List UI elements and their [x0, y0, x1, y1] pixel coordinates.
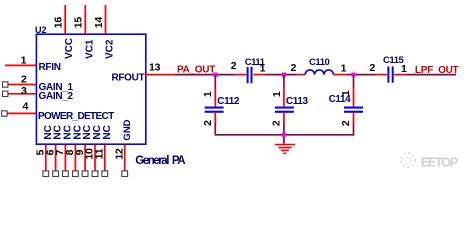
capacitor C113 pin1 stub — [283, 88, 285, 107]
port square pin3 — [3, 91, 8, 96]
svg-text:1: 1 — [21, 54, 27, 66]
capacitor C113 plates — [275, 107, 294, 109]
wire to bottom rail — [283, 123, 285, 135]
bottom ground rail wire — [215, 134, 355, 136]
svg-text:POWER_DETECT: POWER_DETECT — [38, 111, 114, 122]
wire — [356, 74, 376, 76]
svg-text:12: 12 — [113, 148, 125, 160]
svg-text:GAIN_2: GAIN_2 — [39, 91, 74, 102]
capacitor C112 plates — [205, 107, 224, 109]
pin 7 wire — [64, 145, 66, 171]
svg-text:1: 1 — [260, 63, 266, 75]
ground — [275, 145, 295, 154]
net PA_OUT wire — [175, 74, 214, 76]
pin 6 wire — [55, 145, 57, 171]
capacitor C114 pin2 stub — [353, 113, 355, 123]
svg-text:EETOP: EETOP — [421, 156, 458, 170]
pin 8 wire — [74, 145, 76, 171]
svg-text:16: 16 — [53, 17, 65, 29]
pin 14 wire — [105, 5, 107, 34]
net LPF_OUT wire — [406, 74, 456, 76]
svg-text:13: 13 — [149, 61, 161, 73]
svg-text:U2: U2 — [35, 25, 47, 35]
pin 13 wire — [145, 74, 175, 76]
svg-text:PA_OUT: PA_OUT — [177, 64, 215, 75]
ground stem — [283, 137, 285, 144]
pin 15 wire — [84, 5, 86, 34]
capacitor C111 plates — [247, 67, 249, 83]
pin 11 wire — [104, 145, 106, 171]
wire — [217, 74, 235, 76]
svg-text:C112: C112 — [217, 96, 240, 107]
svg-text:2: 2 — [202, 120, 214, 126]
capacitor C111 pin1 stub — [253, 74, 265, 76]
svg-text:RFIN: RFIN — [39, 62, 61, 73]
svg-text:RFOUT: RFOUT — [111, 72, 144, 83]
capacitor C112 pin1 stub — [214, 88, 216, 107]
svg-text:1: 1 — [202, 91, 214, 97]
pin 5 wire — [45, 145, 47, 171]
port square pin4 — [2, 111, 7, 116]
capacitor C114 plates — [344, 107, 363, 109]
svg-text:VC1: VC1 — [84, 39, 95, 59]
pin 4 wire — [7, 112, 36, 114]
pin 10 wire — [94, 145, 96, 171]
svg-text:LPF_OUT: LPF_OUT — [415, 65, 459, 76]
svg-text:2: 2 — [340, 120, 352, 126]
pin 12 wire — [124, 145, 126, 171]
svg-text:1: 1 — [341, 63, 347, 75]
port square pin2 — [3, 82, 8, 87]
svg-text:14: 14 — [93, 17, 105, 29]
capacitor C113 top wire — [283, 75, 285, 88]
wire — [265, 74, 282, 76]
junction node B — [282, 73, 286, 77]
svg-text:1: 1 — [271, 91, 283, 97]
svg-text:4: 4 — [23, 100, 29, 112]
svg-text:15: 15 — [73, 17, 85, 29]
junction node C — [351, 73, 355, 77]
capacitor C115 pin1 stub — [394, 74, 406, 76]
svg-text:2: 2 — [370, 62, 376, 74]
svg-text:3: 3 — [21, 85, 27, 97]
svg-text:VCC: VCC — [64, 38, 75, 59]
capacitor C112 pin2 stub — [214, 113, 216, 123]
svg-text:2: 2 — [231, 60, 237, 72]
svg-text:11: 11 — [94, 148, 106, 159]
op-amp U1 chip body U2 — [36, 34, 145, 144]
capacitor C115 plates — [387, 66, 389, 82]
svg-text:2: 2 — [291, 62, 297, 74]
wire to bottom rail — [214, 123, 216, 135]
svg-text:C110: C110 — [309, 57, 330, 68]
wire — [286, 74, 298, 76]
wire — [347, 74, 354, 76]
capacitor C112 top wire — [214, 75, 216, 88]
capacitor C115 pin2 stub — [375, 74, 387, 76]
capacitor C113 pin2 stub — [283, 113, 285, 123]
svg-text:1: 1 — [340, 90, 352, 96]
svg-text:NC: NC — [102, 125, 113, 139]
pin 2 wire — [8, 84, 36, 86]
pin 1 wire — [5, 64, 36, 66]
junction node A — [213, 73, 217, 77]
wire to bottom rail — [353, 123, 355, 136]
pin 16 wire — [64, 5, 66, 34]
svg-text:GND: GND — [122, 119, 133, 140]
inductor C110 pin2 stub — [298, 74, 305, 76]
svg-text:2: 2 — [21, 73, 27, 85]
capacitor C114 pin1 stub — [353, 88, 355, 107]
svg-text:1: 1 — [401, 63, 407, 75]
port squares bottom — [43, 171, 49, 177]
watermark logo — [401, 153, 415, 167]
inductor C110 coil — [305, 70, 333, 75]
pin 3 wire — [8, 93, 36, 95]
svg-text:General PA: General PA — [135, 155, 185, 167]
inductor C110 pin1 stub — [333, 74, 347, 76]
svg-text:C113: C113 — [286, 96, 309, 107]
svg-text:2: 2 — [270, 120, 282, 126]
capacitor C111 pin2 stub — [235, 74, 246, 76]
junction node D — [282, 133, 286, 137]
capacitor C114 top wire — [353, 75, 355, 88]
pin 9 wire — [84, 145, 86, 171]
svg-text:VC2: VC2 — [105, 39, 116, 59]
